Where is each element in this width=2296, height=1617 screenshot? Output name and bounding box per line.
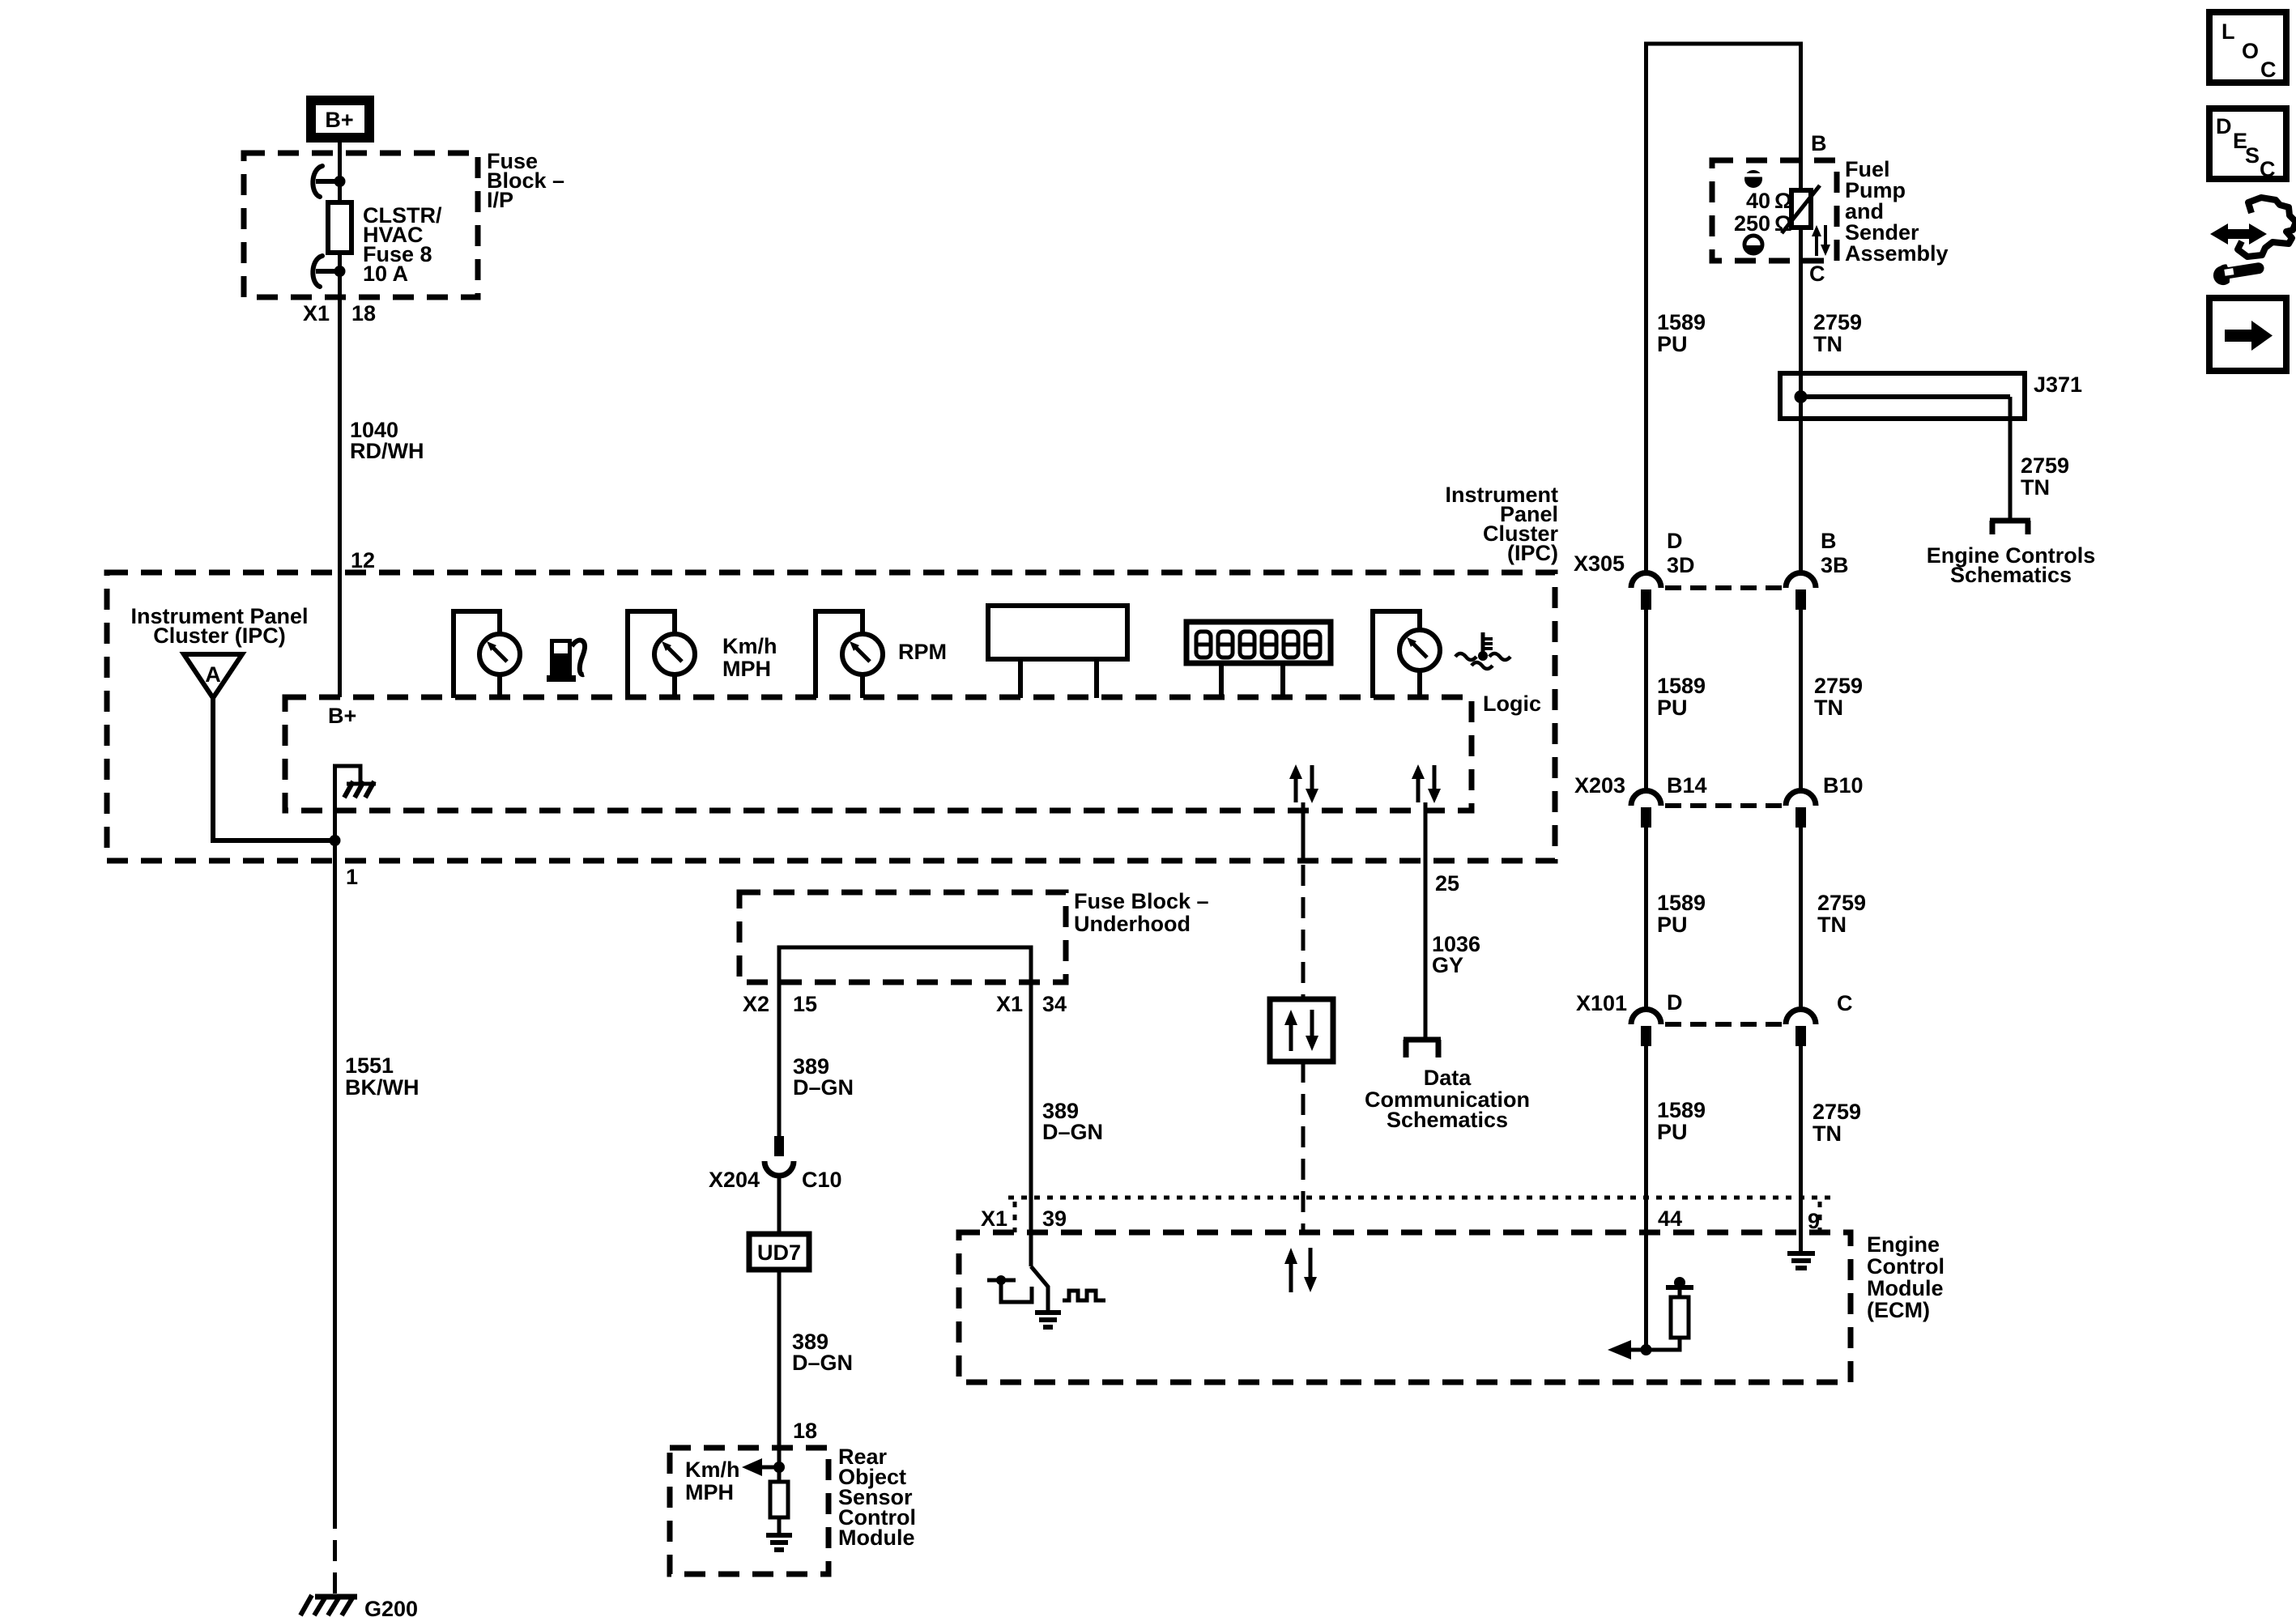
top loop wire bbox=[1646, 44, 1801, 571]
splice pack J371 bbox=[1780, 373, 2025, 419]
fuse block underhood label bbox=[1074, 889, 1209, 936]
logic inner dashed box bbox=[285, 697, 1472, 811]
svg-text:3D: 3D bbox=[1667, 553, 1695, 577]
underhood bus wire bbox=[779, 947, 1031, 982]
svg-text:PU: PU bbox=[1657, 913, 1688, 937]
svg-text:B+: B+ bbox=[328, 704, 356, 728]
svg-text:34: 34 bbox=[1042, 992, 1067, 1016]
wire 389 D-GN to rear object module bbox=[777, 1270, 782, 1482]
inline connector X203 right bbox=[1786, 791, 1816, 828]
labels seg4 bbox=[1657, 1098, 1706, 1144]
svg-text:C10: C10 bbox=[802, 1168, 842, 1192]
svg-text:15: 15 bbox=[793, 992, 817, 1016]
tachometer stem bbox=[860, 674, 865, 698]
ground G200 bbox=[300, 1595, 418, 1617]
fuse block I/P dashed box bbox=[244, 153, 478, 297]
svg-text:X2: X2 bbox=[743, 992, 769, 1016]
wire label 1036 GY bbox=[1432, 932, 1480, 977]
svg-text:39: 39 bbox=[1042, 1206, 1067, 1231]
svg-text:RD/WH: RD/WH bbox=[350, 439, 424, 463]
svg-text:1589: 1589 bbox=[1657, 1098, 1706, 1122]
inline connector X305 left bbox=[1631, 573, 1661, 611]
speedometer bracket bbox=[628, 611, 675, 698]
svg-text:X1: X1 bbox=[981, 1206, 1007, 1231]
tachometer bracket bbox=[816, 611, 863, 698]
svg-text:BK/WH: BK/WH bbox=[345, 1075, 419, 1100]
svg-text:3B: 3B bbox=[1821, 553, 1849, 577]
svg-text:1589: 1589 bbox=[1657, 310, 1706, 334]
wire label 389 D-GN bbox=[793, 1054, 854, 1100]
svg-text:I/P: I/P bbox=[487, 188, 513, 212]
svg-text:X1: X1 bbox=[996, 992, 1023, 1016]
battery feed symbol B+ bbox=[311, 100, 369, 138]
pin D 3D labels bbox=[1667, 529, 1695, 577]
svg-text:TN: TN bbox=[1814, 696, 1843, 720]
odometer stems bbox=[1221, 663, 1283, 698]
temp gauge bbox=[1399, 630, 1440, 670]
earth ground pin 39 bbox=[1035, 1313, 1061, 1327]
forward reference arrow box bbox=[2209, 298, 2286, 371]
svg-text:Module: Module bbox=[1867, 1276, 1944, 1300]
svg-text:C: C bbox=[1809, 262, 1825, 286]
svg-text:Km/h: Km/h bbox=[722, 634, 777, 658]
wire 1589 PU label seg1 bbox=[1657, 310, 1706, 356]
wire label 1040 RD/WH bbox=[350, 418, 424, 463]
svg-text:X305: X305 bbox=[1574, 551, 1625, 576]
description reference box DESC bbox=[2209, 109, 2286, 181]
svg-text:B14: B14 bbox=[1667, 773, 1707, 798]
svg-text:TN: TN bbox=[2021, 475, 2050, 500]
fuse CLSTR/HVAC Fuse 8 10A element bbox=[328, 202, 351, 253]
fuel pump icon bbox=[547, 639, 585, 682]
svg-text:Control: Control bbox=[1867, 1254, 1945, 1279]
speedometer gauge bbox=[654, 634, 695, 674]
wire 1589 PU seg2 bbox=[1644, 610, 1648, 791]
connector dashed link X101 bbox=[1665, 1022, 1788, 1027]
serial data wire below pair1 bbox=[1301, 802, 1306, 861]
svg-text:X204: X204 bbox=[709, 1168, 760, 1192]
svg-text:2759: 2759 bbox=[1817, 891, 1866, 915]
svg-text:Schematics: Schematics bbox=[1950, 563, 2072, 587]
svg-text:2759: 2759 bbox=[1813, 310, 1862, 334]
svg-text:Data: Data bbox=[1424, 1066, 1472, 1090]
fuse value label bbox=[363, 203, 442, 286]
IPC left label bbox=[130, 604, 308, 648]
svg-text:(IPC): (IPC) bbox=[1507, 541, 1558, 565]
svg-text:D–GN: D–GN bbox=[793, 1075, 854, 1100]
sender variable resistor bbox=[1782, 185, 1820, 233]
pin labels X1 39 bbox=[981, 1206, 1067, 1231]
svg-text:J371: J371 bbox=[2034, 372, 2082, 397]
ECM data arrows bbox=[1284, 1248, 1317, 1292]
svg-text:Assembly: Assembly bbox=[1845, 241, 1949, 266]
wire to ground bbox=[777, 1517, 782, 1535]
logic data arrows pair 2 bbox=[1412, 764, 1441, 803]
rear object sensor control module dashed box bbox=[670, 1448, 829, 1574]
wire 1589 PU top segment bbox=[1644, 44, 1648, 573]
branch wire 2759 TN from J371 bbox=[2008, 397, 2013, 518]
fuel gauge stem bbox=[497, 674, 502, 698]
svg-text:S: S bbox=[2245, 143, 2260, 168]
Km/h MPH label bbox=[685, 1457, 740, 1504]
wire through sender bbox=[1799, 160, 1803, 373]
ECM pin39 internal wire bbox=[1031, 1266, 1048, 1313]
svg-text:PU: PU bbox=[1657, 696, 1688, 720]
svg-text:250: 250 bbox=[1734, 211, 1770, 236]
fuse clip top bbox=[313, 166, 345, 197]
junction node bbox=[773, 1462, 785, 1473]
svg-text:(ECM): (ECM) bbox=[1867, 1298, 1930, 1322]
svg-text:B10: B10 bbox=[1823, 773, 1864, 798]
wire 389 D-GN right branch bbox=[1029, 982, 1033, 1266]
inline connector X305 right bbox=[1786, 573, 1816, 611]
svg-text:B: B bbox=[1811, 131, 1827, 155]
ECM connector dotted line bbox=[1008, 1198, 1834, 1232]
svg-text:Module: Module bbox=[838, 1526, 915, 1550]
svg-text:C: C bbox=[1837, 991, 1853, 1015]
inline connector X101 right bbox=[1786, 1010, 1816, 1047]
pump symbol top bbox=[1743, 170, 1765, 188]
svg-text:X101: X101 bbox=[1576, 991, 1627, 1015]
svg-text:Underhood: Underhood bbox=[1074, 912, 1191, 936]
connector triangle A bbox=[184, 654, 242, 698]
labels seg2 bbox=[1657, 674, 1706, 720]
engine controls schematics label bbox=[1927, 543, 2096, 587]
wire 1551 BK/WH down bbox=[333, 840, 337, 1508]
svg-text:GY: GY bbox=[1432, 953, 1463, 977]
fuse clip bottom bbox=[313, 256, 345, 287]
odometer digits 888888 bbox=[1196, 632, 1320, 657]
fuel pump and sender assembly dashed box bbox=[1712, 160, 1837, 261]
svg-text:TN: TN bbox=[1813, 332, 1842, 356]
logic data arrows pair 1 bbox=[1289, 764, 1318, 803]
svg-text:C: C bbox=[2260, 157, 2276, 181]
tachometer gauge bbox=[842, 634, 883, 674]
off-page connector to data schematics bbox=[1404, 1040, 1441, 1057]
Km/h MPH label bbox=[722, 634, 777, 681]
fuel pump sender label bbox=[1845, 157, 1949, 266]
wire 2759 TN label seg1 bbox=[1813, 310, 1862, 356]
svg-text:2759: 2759 bbox=[2021, 453, 2069, 478]
ECM label bbox=[1867, 1232, 1945, 1322]
fuel gauge bracket bbox=[454, 611, 500, 698]
svg-text:44: 44 bbox=[1658, 1206, 1682, 1231]
wire 2759 TN seg2 bbox=[1799, 610, 1803, 791]
svg-text:D: D bbox=[1667, 529, 1683, 553]
inline connector X204 C10 bbox=[765, 1136, 794, 1176]
labels seg3 bbox=[1657, 891, 1706, 937]
svg-text:D–GN: D–GN bbox=[1042, 1120, 1103, 1144]
ECM switch contact symbol bbox=[987, 1275, 1032, 1302]
svg-text:Fuse Block –: Fuse Block – bbox=[1074, 889, 1209, 913]
svg-text:L: L bbox=[2221, 19, 2235, 44]
coolant temp icon bbox=[1455, 632, 1510, 669]
svg-text:G200: G200 bbox=[364, 1597, 418, 1617]
svg-text:1551: 1551 bbox=[345, 1053, 394, 1078]
pin B 3B labels bbox=[1821, 529, 1849, 577]
fuse block label bbox=[487, 149, 564, 212]
location reference box LOC bbox=[2209, 12, 2286, 83]
svg-text:X1: X1 bbox=[303, 301, 330, 326]
wire to UD7 bbox=[777, 1174, 782, 1234]
wire 1589 PU seg4 bbox=[1644, 1046, 1648, 1350]
svg-text:Logic: Logic bbox=[1483, 691, 1541, 716]
wire label 389 D-GN bbox=[792, 1330, 853, 1375]
svg-text:PU: PU bbox=[1657, 332, 1688, 356]
connector dashed link X203 bbox=[1665, 803, 1788, 808]
svg-text:Cluster (IPC): Cluster (IPC) bbox=[153, 623, 286, 648]
svg-text:B: B bbox=[1821, 529, 1837, 553]
svg-text:12: 12 bbox=[351, 548, 375, 572]
wire label 1551 BK/WH bbox=[345, 1053, 419, 1100]
wire 2759 TN seg3 bbox=[1799, 828, 1803, 1010]
svg-text:UD7: UD7 bbox=[757, 1240, 801, 1265]
wire 1040 RD/WH from B+ to fuse bbox=[338, 143, 342, 697]
rear object sensor control module label bbox=[838, 1445, 916, 1550]
data communication schematics label bbox=[1365, 1066, 1530, 1132]
odometer digital display bbox=[1186, 622, 1331, 663]
square wave symbol bbox=[1063, 1291, 1105, 1300]
earth ground pin 9 bbox=[1787, 1253, 1815, 1268]
svg-text:X203: X203 bbox=[1574, 773, 1625, 798]
svg-text:Engine: Engine bbox=[1867, 1232, 1940, 1257]
svg-text:1: 1 bbox=[346, 865, 358, 889]
ECM pin44 pullup resistor bbox=[1646, 1277, 1694, 1350]
svg-text:10 A: 10 A bbox=[363, 262, 408, 286]
chassis ground symbol in IPC bbox=[344, 781, 376, 798]
display module box bbox=[988, 606, 1127, 659]
sender arrows bbox=[1812, 225, 1830, 256]
svg-text:MPH: MPH bbox=[722, 657, 771, 681]
svg-text:18: 18 bbox=[793, 1419, 817, 1443]
off-page connector engine controls bbox=[1990, 521, 2030, 534]
branch label 2759 TN bbox=[2021, 453, 2069, 500]
ECM pin44 internal: junction and arrow bbox=[1608, 1340, 1652, 1360]
temp gauge stem bbox=[1417, 670, 1422, 698]
wire 2759 TN seg4 bbox=[1799, 1046, 1803, 1252]
svg-text:O: O bbox=[2242, 39, 2259, 63]
engine control module dashed box bbox=[959, 1232, 1851, 1382]
svg-text:PU: PU bbox=[1657, 1120, 1688, 1144]
resistor in rear object module bbox=[770, 1482, 788, 1517]
wire label 389 D-GN bbox=[1042, 1099, 1103, 1144]
svg-text:Km/h: Km/h bbox=[685, 1457, 740, 1482]
wire 25 from logic bbox=[1424, 802, 1428, 1037]
inline connector X101 left bbox=[1631, 1010, 1661, 1047]
IPC right label bbox=[1445, 483, 1558, 565]
earth ground in rear object module bbox=[766, 1535, 792, 1550]
svg-text:2759: 2759 bbox=[1813, 1100, 1861, 1124]
arrow into module bbox=[742, 1458, 779, 1476]
svg-text:25: 25 bbox=[1435, 871, 1459, 896]
boxed bidirectional arrows bbox=[1270, 999, 1333, 1062]
svg-text:D–GN: D–GN bbox=[792, 1351, 853, 1375]
wire 1589 PU seg3 bbox=[1644, 828, 1648, 1010]
connector dashed link X305 bbox=[1665, 585, 1788, 590]
pin labels X2 15 X1 34 bbox=[743, 992, 1067, 1016]
svg-text:A: A bbox=[205, 662, 221, 687]
instrument panel cluster IPC dashed box bbox=[107, 572, 1555, 861]
svg-text:B+: B+ bbox=[325, 108, 353, 132]
svg-text:D: D bbox=[2216, 114, 2232, 138]
wire from triangle A to ground junction bbox=[213, 698, 334, 840]
svg-text:2759: 2759 bbox=[1814, 674, 1863, 698]
internal ground wire bbox=[335, 766, 361, 840]
resistance values 40 ohm 250 ohm bbox=[1734, 189, 1792, 236]
temp gauge bracket bbox=[1373, 611, 1420, 698]
serial data dashed wire to ECM bbox=[1301, 1062, 1306, 1231]
svg-text:D: D bbox=[1667, 990, 1683, 1015]
svg-text:40: 40 bbox=[1746, 189, 1770, 213]
speedometer stem bbox=[672, 674, 677, 698]
svg-text:Schematics: Schematics bbox=[1387, 1108, 1508, 1132]
fuel gauge bbox=[479, 634, 520, 674]
pin labels X1 18 bbox=[303, 301, 376, 326]
svg-text:18: 18 bbox=[351, 301, 376, 326]
display module stems bbox=[1020, 659, 1097, 698]
wire 389 D-GN left bbox=[777, 982, 782, 1136]
pump symbol bottom bbox=[1744, 236, 1762, 254]
X204 C10 labels bbox=[709, 1168, 842, 1192]
svg-text:RPM: RPM bbox=[898, 640, 947, 664]
inline connector X203 left bbox=[1631, 791, 1661, 828]
junction node bbox=[330, 835, 341, 846]
svg-text:TN: TN bbox=[1813, 1121, 1842, 1146]
option code UD7 box bbox=[749, 1234, 809, 1270]
diagnostic icon car and wrench bbox=[2210, 198, 2296, 287]
svg-text:MPH: MPH bbox=[685, 1480, 734, 1504]
svg-text:1589: 1589 bbox=[1657, 891, 1706, 915]
svg-text:C: C bbox=[2260, 57, 2277, 82]
wire through J371 down bbox=[1799, 373, 1803, 573]
fuse block underhood dashed box bbox=[739, 892, 1066, 982]
svg-text:1589: 1589 bbox=[1657, 674, 1706, 698]
svg-text:TN: TN bbox=[1817, 913, 1847, 937]
